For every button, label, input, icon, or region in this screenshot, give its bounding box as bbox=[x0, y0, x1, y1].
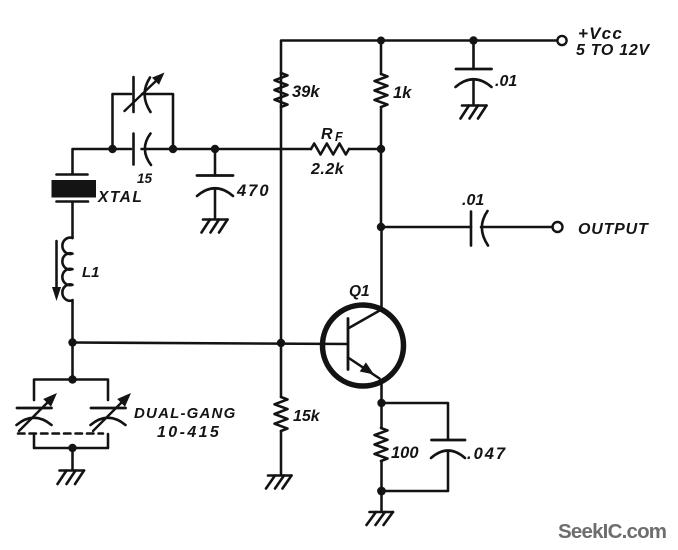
wire collector node to output tap bbox=[380, 149, 383, 227]
svg-text:15k: 15k bbox=[293, 408, 321, 425]
ground bypass cap bbox=[461, 106, 487, 119]
svg-text:5 TO 12V: 5 TO 12V bbox=[576, 42, 650, 59]
node dot base divider bbox=[277, 339, 285, 347]
svg-text:2.2k: 2.2k bbox=[310, 161, 345, 178]
wire L1 to tuning cap bbox=[71, 343, 74, 380]
svg-text:39k: 39k bbox=[292, 83, 320, 101]
capacitor .01 bypass at Vcc bbox=[472, 41, 475, 70]
terminal +Vcc bbox=[557, 36, 566, 45]
wire output bbox=[381, 226, 471, 229]
wire top Vcc rail bbox=[281, 41, 557, 74]
node dot box top bbox=[68, 375, 76, 383]
resistor R 1k bbox=[375, 74, 388, 107]
wire emitter ground bbox=[380, 491, 383, 512]
node dot top rail 1k bbox=[377, 37, 385, 45]
svg-text:Q1: Q1 bbox=[349, 283, 370, 300]
crystal XTAL bbox=[57, 173, 88, 176]
wire box to ground bbox=[71, 448, 74, 470]
svg-text:OUTPUT: OUTPUT bbox=[578, 221, 649, 238]
svg-text:1k: 1k bbox=[393, 84, 412, 102]
svg-text:+Vcc: +Vcc bbox=[578, 24, 623, 43]
transistor Q1 bbox=[323, 305, 404, 386]
node dot trimmer right bbox=[169, 145, 177, 153]
arrow L1 bbox=[55, 241, 58, 288]
trimmer capacitor bbox=[132, 77, 135, 112]
node dot RF right / 1k bottom bbox=[377, 145, 385, 153]
wire 1k top lead bbox=[380, 41, 383, 75]
inductor L1 bbox=[62, 238, 72, 301]
wire 39k top lead bbox=[280, 73, 283, 107]
node dot L1 bottom bbox=[68, 338, 76, 346]
capacitor 15 series bbox=[132, 134, 135, 165]
node dot emitter top bbox=[377, 399, 385, 407]
ground 470 bbox=[202, 220, 228, 233]
resistor RF 2.2k bbox=[311, 144, 349, 155]
ground 15k bbox=[266, 476, 292, 489]
node dot box bottom bbox=[68, 444, 76, 452]
svg-text:R: R bbox=[321, 126, 333, 143]
ground tuning cap bbox=[58, 471, 85, 485]
wire collector lead bbox=[380, 227, 383, 310]
wire 1k bottom lead bbox=[380, 107, 383, 149]
wire 39k/15k column bbox=[280, 107, 283, 343]
node dot 470 branch bbox=[211, 145, 219, 153]
wire emitter RC branch bbox=[382, 403, 449, 440]
wire base line bbox=[73, 343, 349, 345]
node dot collector output tap bbox=[377, 223, 385, 231]
svg-text:DUAL-GANG: DUAL-GANG bbox=[134, 405, 236, 422]
resistor 100 bbox=[380, 403, 383, 428]
svg-text:SeekIC.com: SeekIC.com bbox=[558, 520, 666, 543]
svg-text:XTAL: XTAL bbox=[97, 189, 143, 206]
ground emitter bbox=[367, 512, 394, 525]
wire horizontal crystal/RF line bbox=[73, 149, 132, 174]
wire trimmer parallel loop bbox=[113, 94, 132, 149]
svg-text:L1: L1 bbox=[82, 264, 100, 281]
svg-text:F: F bbox=[335, 130, 343, 144]
dashed gang link bbox=[18, 432, 103, 435]
dual-gang tuning capacitor box bbox=[34, 380, 73, 401]
resistor R 39k bbox=[275, 73, 288, 107]
capacitor .01 output bbox=[470, 212, 473, 246]
node dot trimmer left bbox=[108, 145, 116, 153]
svg-text:10-415: 10-415 bbox=[157, 424, 221, 441]
emitter wire bbox=[380, 382, 383, 403]
terminal OUTPUT bbox=[553, 222, 563, 232]
svg-text:100: 100 bbox=[391, 444, 419, 462]
variable capacitor right gang bbox=[91, 407, 126, 410]
svg-text:.01: .01 bbox=[462, 192, 484, 209]
svg-text:15: 15 bbox=[137, 171, 153, 186]
capacitor 470 bbox=[214, 149, 217, 176]
variable capacitor left gang bbox=[17, 407, 52, 410]
node dot emitter bottom bbox=[377, 487, 386, 496]
svg-text:.01: .01 bbox=[495, 73, 517, 90]
svg-text:470: 470 bbox=[236, 182, 271, 200]
svg-text:.047: .047 bbox=[467, 445, 507, 463]
node dot top rail bypass cap bbox=[469, 36, 477, 44]
resistor 15k bbox=[280, 343, 283, 397]
capacitor .047 bbox=[432, 439, 466, 442]
